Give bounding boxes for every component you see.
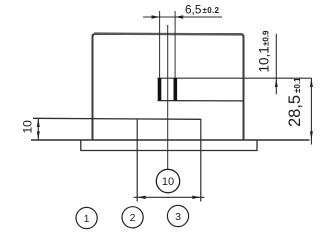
top dim arrows xyxy=(152,15,184,18)
slot bottom line xyxy=(158,100,245,102)
center line of pin xyxy=(167,25,169,170)
arrow bottom of 10,1 (outside, pointing up to line) xyxy=(275,79,278,87)
svg-text:2: 2 xyxy=(130,212,136,224)
text 28,5 ±0.1 (rotated) xyxy=(286,77,304,127)
circled 3 xyxy=(167,205,188,226)
cutout right edge / dim extension xyxy=(200,119,202,202)
arrow top of 28,5 xyxy=(310,78,313,87)
bottom dimension line xyxy=(134,196,205,198)
svg-text:3: 3 xyxy=(175,211,181,223)
circled 2 xyxy=(122,207,143,228)
slot left wall (thick) xyxy=(158,78,162,101)
extension line left of top dim xyxy=(159,11,161,78)
dim 28,5 vertical line xyxy=(310,78,312,145)
svg-text:±0.9: ±0.9 xyxy=(262,30,271,46)
left dim 10 xyxy=(37,118,39,140)
svg-text:10: 10 xyxy=(162,176,174,188)
text 10,1 ±0.9 (rotated) xyxy=(257,30,272,73)
text 10 left (rotated) xyxy=(21,120,35,134)
dim 10,1 vertical line xyxy=(275,34,277,94)
slot top line / 28,5 upper extension xyxy=(158,77,312,79)
top dimension line 6,5 xyxy=(143,16,222,18)
cutout left edge / dim extension xyxy=(136,119,138,202)
svg-text:±0.1: ±0.1 xyxy=(293,77,302,93)
circled 10 label xyxy=(156,169,179,192)
svg-text:1: 1 xyxy=(84,213,90,225)
slot right wall (thick) xyxy=(174,78,178,101)
arrow bottom of 28,5 xyxy=(310,131,313,140)
flange bottom line / 28,5 lower extension xyxy=(31,139,310,141)
svg-text:6,5: 6,5 xyxy=(185,2,202,16)
extension line right of top dim xyxy=(174,11,176,78)
body outline (component side view) xyxy=(93,34,244,140)
body top edge thick gray overdraw xyxy=(94,32,242,35)
circled 1 xyxy=(76,207,97,228)
lower plate left edge xyxy=(81,140,257,151)
svg-text:10,1: 10,1 xyxy=(257,46,272,72)
svg-text:10: 10 xyxy=(21,120,35,134)
svg-text:±0.2: ±0.2 xyxy=(203,6,220,15)
svg-text:28,5: 28,5 xyxy=(286,95,304,127)
flange top line xyxy=(33,118,201,119)
